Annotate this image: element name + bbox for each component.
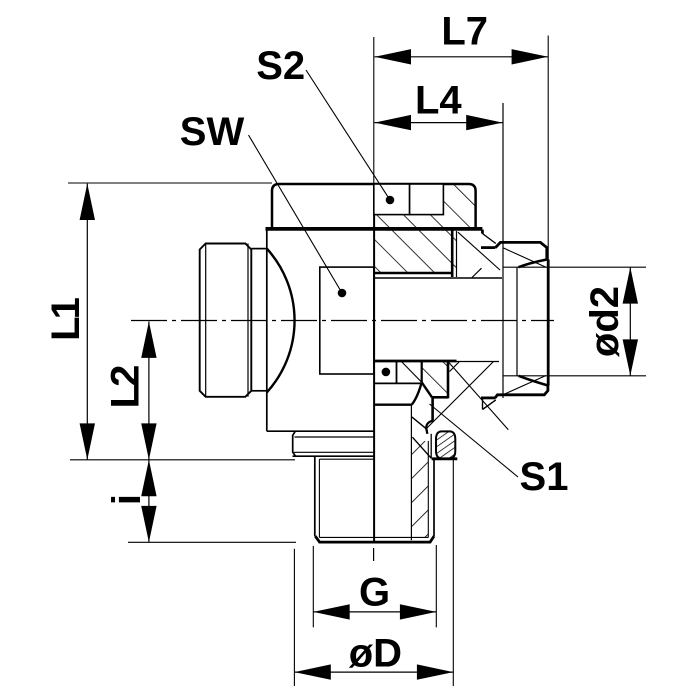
dim L4 arrow right: [466, 115, 502, 130]
cone leg right: [422, 382, 432, 397]
dim G extension right: [435, 545, 437, 627]
cone edge vertical: [421, 361, 423, 382]
dim L7 extension left: [373, 37, 375, 184]
connector collar top thick: [481, 246, 495, 249]
lower window divider: [396, 361, 398, 383]
pocket lip hook: [426, 421, 432, 434]
dim L7 line: [375, 56, 549, 58]
pocket dovetail lower diagonal: [412, 437, 431, 458]
dim oD extension left: [293, 549, 295, 686]
hatch region head right (bolt head section): [374, 184, 476, 229]
body right face thin pair: [456, 231, 458, 277]
washer inner bottom: [294, 451, 374, 453]
pocket left wall thin: [430, 434, 432, 459]
hex chamfer curve top: [519, 260, 547, 268]
body right face thick: [451, 229, 454, 277]
dim G line: [313, 611, 436, 613]
hex chamfer curve bottom: [519, 376, 548, 386]
port bore chamfer tick bottom: [450, 362, 460, 372]
dim oD line: [294, 671, 453, 673]
svg-text:i: i: [105, 494, 149, 505]
pocket dovetail upper diagonal: [412, 417, 427, 429]
connector hex bottom profile thick: [495, 386, 548, 398]
right bore top thin: [374, 277, 502, 279]
bolt bore wall: [410, 405, 412, 541]
hatch region stud section band: [411, 441, 428, 537]
plug facet line right: [247, 244, 249, 397]
dim L1 arrow top: [80, 184, 95, 220]
dim L1 line: [86, 184, 88, 460]
S2 seal dot: [386, 196, 395, 205]
washer inner top: [295, 436, 375, 438]
notch stub top: [481, 230, 484, 234]
dim oD arrow right: [417, 664, 453, 679]
neck top: [251, 248, 266, 250]
washer bottom: [293, 455, 375, 457]
dim L2 arrow top: [141, 322, 156, 358]
hex facet vertical + L4 ext: [502, 103, 504, 398]
lower seal dot: [382, 368, 391, 377]
dim i arrow bottom: [141, 506, 156, 542]
SW dot: [338, 289, 347, 298]
dim L1 arrow bottom: [80, 423, 95, 459]
lower window diagonal: [401, 362, 421, 383]
dim L1 extension top: [68, 182, 272, 184]
port bore chamfer tick top: [472, 268, 482, 277]
head seal window 2: [410, 184, 444, 215]
tube shoulder vertical: [516, 267, 518, 376]
banjo bolt head outline: [272, 184, 476, 229]
leader S2: [306, 70, 390, 200]
port cone line P: [426, 362, 494, 430]
washer left edge chamfered: [293, 431, 296, 456]
dim G arrow right: [400, 604, 436, 619]
stud axis dash: [373, 548, 375, 561]
dim i line: [148, 460, 150, 543]
stud bottom face thick: [315, 536, 434, 542]
stud bottom inner: [319, 536, 428, 538]
svg-text:L7: L7: [441, 10, 488, 54]
lower band top thick: [374, 360, 457, 363]
bore rectangle (SW window): [320, 267, 374, 374]
stud thread minor left: [318, 459, 320, 537]
dim L2 line: [148, 322, 150, 460]
bolt section boundary vertical: [373, 215, 375, 542]
right port bore bottom thin: [457, 361, 500, 363]
pocket left wall: [431, 397, 434, 421]
body lower right edge: [447, 361, 450, 398]
o-ring seat thick: [432, 457, 458, 460]
dim G extension left: [312, 546, 314, 627]
port cone line D2: [458, 232, 500, 270]
dim i extension bottom: [128, 541, 296, 543]
hex facet diagonal top: [504, 248, 547, 267]
neck bottom: [251, 390, 266, 392]
svg-text:L2: L2: [104, 366, 148, 408]
notch chamfer bottom: [483, 400, 496, 410]
main horizontal centerline: [131, 320, 554, 322]
dim i arrow top: [141, 460, 156, 496]
svg-text:ød2: ød2: [583, 286, 627, 357]
left plug outline: [200, 244, 252, 397]
svg-text:L1: L1: [44, 297, 88, 340]
svg-text:S2: S2: [256, 44, 305, 88]
dim oD extension right: [452, 460, 454, 686]
plug facet line left: [205, 244, 207, 397]
leader S1: [430, 404, 519, 477]
hatch region body lower wall: [422, 361, 448, 397]
body hex arc: [267, 249, 295, 393]
notch chamfer D1: [482, 234, 495, 244]
svg-text:L4: L4: [415, 79, 462, 123]
head seal window 1: [374, 184, 410, 215]
dim L7 arrow right: [512, 49, 548, 64]
stud thread minor right: [427, 441, 429, 537]
hex facet diagonal bottom: [504, 376, 547, 395]
dim oD arrow left: [294, 664, 330, 679]
notch stub bottom: [482, 398, 484, 410]
dim od2 line: [629, 267, 631, 376]
port cone line Q: [448, 362, 508, 430]
dim L4 line: [375, 122, 503, 124]
stud thread major left: [314, 456, 316, 536]
pocket top thick: [432, 396, 448, 399]
svg-text:SW: SW: [180, 110, 245, 154]
tube end face thick: [547, 260, 550, 386]
dim L2 arrow bottom: [141, 423, 156, 459]
dim od2 arrow top: [623, 267, 638, 303]
flange seat thick: [374, 404, 412, 406]
dim L7 extension right: [547, 36, 549, 260]
svg-text:G: G: [359, 571, 390, 615]
svg-text:S1: S1: [520, 455, 569, 499]
cone leg left (curved): [412, 382, 422, 404]
connector hex top profile thick: [495, 242, 546, 259]
hatch region body top wall: [374, 230, 457, 274]
washer top / body bottom: [267, 430, 375, 432]
body left face: [266, 229, 268, 431]
o-ring: [436, 431, 455, 458]
dim L1/L2 extension bottom: [70, 459, 295, 461]
dim L4 arrow left: [375, 115, 411, 130]
body top edge (thick): [266, 227, 483, 231]
leader SW: [249, 135, 343, 293]
body block bottom thick: [374, 272, 452, 274]
dim od2 arrow bottom: [623, 339, 638, 375]
svg-text:øD: øD: [349, 631, 402, 675]
stud thread top: [319, 458, 374, 460]
dim L7 arrow left: [375, 49, 411, 64]
dim od2 extension bottom: [504, 375, 647, 377]
lower seal window bottom: [375, 382, 422, 384]
dim od2 extension top: [504, 266, 647, 268]
stud thread major right: [433, 459, 435, 536]
connector collar bottom thick: [481, 396, 496, 399]
dim G arrow left: [313, 604, 349, 619]
